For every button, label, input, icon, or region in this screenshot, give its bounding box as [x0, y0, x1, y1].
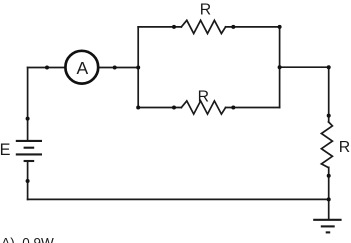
svg-text:E: E [0, 141, 11, 159]
wire top rail right segment [226, 26, 280, 28]
node dot R1 left lead [172, 25, 176, 29]
node dot above battery [26, 117, 30, 121]
wire bottom branch left segment [138, 107, 181, 109]
node dot bottom branch left corner [136, 106, 140, 110]
node dot R3 top lead [327, 114, 331, 118]
ground symbol [313, 220, 341, 233]
node dot top of far-right vertical [327, 65, 331, 69]
wire battery bottom lead [27, 162, 29, 200]
wire top-left horizontal from corner to ammeter [28, 67, 65, 69]
ammeter A [65, 51, 98, 84]
node dot right of ammeter [113, 66, 117, 70]
node dot R2 right lead [231, 106, 235, 110]
wire bottom rail [28, 198, 329, 200]
node junction on left vertical [136, 66, 140, 70]
resistor R3 zigzag (right, vertical) [321, 122, 332, 168]
wire left vertical of parallel section [137, 27, 139, 108]
svg-text:R: R [200, 2, 211, 19]
svg-text:A: A [76, 58, 88, 78]
wire left vertical from corner down to battery top plate [27, 68, 29, 140]
svg-text:R: R [198, 89, 209, 106]
node dot R3 bottom lead [327, 174, 331, 178]
svg-text:A) 0.9W: A) 0.9W [1, 236, 54, 243]
node dot left of ammeter [45, 66, 49, 70]
wire right vertical lower lead to bottom rail and ground stem [328, 167, 330, 219]
wire right vertical upper lead [328, 67, 330, 122]
resistor R2 zigzag (bottom branch) [181, 101, 225, 114]
node dot bottom rail junction [327, 197, 331, 201]
wire bottom branch right segment [226, 107, 280, 109]
node dot R2 left lead [172, 106, 176, 110]
node junction right vertical mid [278, 65, 282, 69]
svg-text:R: R [339, 139, 350, 156]
node dot below battery [26, 179, 30, 183]
node dot R1 right lead [231, 25, 235, 29]
wire from ammeter right to node junction [99, 67, 138, 69]
node dot top-right corner [278, 25, 282, 29]
wire top rail left segment [138, 26, 181, 28]
battery E plates [16, 141, 42, 161]
wire middle horizontal to right vertical [280, 66, 329, 68]
resistor R1 zigzag (top branch) [181, 20, 225, 33]
wire right vertical of parallel section [279, 27, 281, 108]
